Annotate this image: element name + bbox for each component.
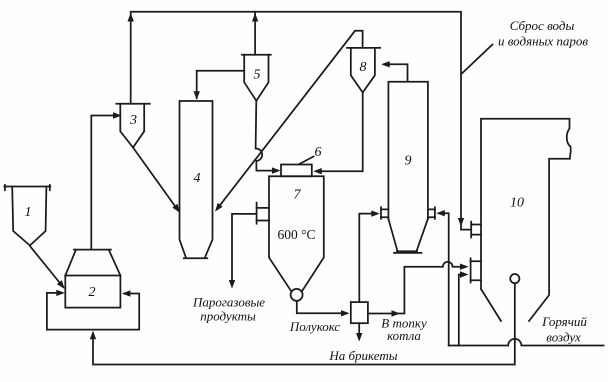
wire gasifier 2 to cyclone 3 inlet [91,116,119,250]
arrow into vessel 9 left flange [371,210,380,216]
wire hot air riser to vessel 9 right flange [439,213,449,345]
svg-text:Полукокс: Полукокс [289,319,341,334]
svg-text:и водяных паров: и водяных паров [498,34,588,49]
vessel 9 left flange [381,207,388,219]
svg-text:На брикеты: На брикеты [328,348,397,363]
arrow recycle up into jacket loop [90,331,96,340]
svg-text:7: 7 [294,188,302,203]
wire cyclone 3 underflow to vessel 4 [133,148,178,211]
furnace 10 drain circle [510,274,519,283]
cyclone 8 [347,48,380,93]
furnace 10 upper nozzle flange [471,222,481,238]
svg-text:Парогазовые: Парогазовые [192,295,265,310]
wire splitter down to briquettes [358,323,360,339]
arrow down На брикеты [356,333,362,342]
svg-text:котла: котла [387,328,421,343]
wire vessel 9 top to cyclone 8 [384,64,408,81]
furnace 10 lower nozzle flange [471,258,481,282]
arrow into furnace lower nozzle lower port [460,271,469,277]
svg-text:9: 9 [405,154,412,169]
wire hopper 1 chute to gasifier 2 [30,246,63,287]
svg-text:6: 6 [315,145,322,160]
arrow jacket loop into gasifier 2 left [56,290,65,296]
svg-text:воздух: воздух [546,330,581,345]
svg-text:продукты: продукты [200,309,256,324]
box 6 [281,165,312,177]
wire gasifier 2 jacket loop [47,293,139,330]
gasifier 2 body [65,250,120,308]
svg-text:10: 10 [510,196,524,211]
wire vessel 7 bottom to splitter box [297,301,347,313]
arrow into cyclone 3 inlet [113,112,122,118]
cyclone 5 [242,55,271,101]
svg-text:3: 3 [129,113,137,128]
wire splitter to boiler furnace with hop [368,262,466,314]
wire splitter riser to vessel 9 left flange [359,214,377,302]
vessel 7 body [269,176,324,291]
arrow into vessel 9 right flange [436,210,445,216]
vessel 9 right flange [428,207,435,219]
vessel 9 body [388,82,428,253]
wire cyclone 8 underflow to box 6 [317,93,363,172]
wire hot air branch to furnace lower nozzle [459,275,466,346]
arrow down Парогазовые продукты [229,280,235,289]
svg-text:8: 8 [360,60,367,75]
hopper 1 [4,185,50,246]
arrow diagonal into vessel 4 left wall [172,204,180,213]
furnace 10 outline [481,119,571,321]
arrow jacket loop into gasifier 2 right [122,290,130,296]
wire furnace drain recycle to gasifier 2 [93,283,515,364]
wire riser from cyclone 5 top [254,12,256,55]
svg-text:2: 2 [89,285,96,300]
svg-text:5: 5 [254,68,261,83]
cyclone 3 [116,104,149,148]
arrow up into top pipe from cyclone 3 [128,13,134,22]
arrow diagonal into vessel 4 right wall [215,203,223,212]
label pointer Сброс воды [462,45,493,74]
arrow down on discharge pipe [458,218,464,227]
wire cyclone 5 underflow to box 6 with line hop [256,101,278,171]
splitter box [351,302,368,323]
arrow into box 6 left [272,167,281,173]
svg-text:4: 4 [194,171,201,186]
svg-text:Сброс воды: Сброс воды [510,18,575,33]
arrow into splitter box [341,310,350,316]
svg-text:1: 1 [25,205,32,220]
arrow hopper 1 chute into gasifier 2 [57,280,65,289]
label pointer for 6 [299,157,314,165]
arrow mid-line В топку котла [392,310,401,316]
svg-text:600 °C: 600 °C [277,227,315,242]
vessel 7 bottom valve circle [291,289,303,301]
wire diagonal feed into cyclone 8 [217,31,362,209]
svg-text:Горячий: Горячий [541,314,587,329]
wire top collector pipe to discharge [131,12,471,230]
arrow into furnace lower nozzle upper port [460,264,469,270]
wire vessel 7 gas offtake to Парогазовые продукты [232,214,255,286]
arrow down into vessel 4 top [194,91,200,100]
vessel 4 [180,101,213,258]
wire cyclone 5 outlet to vessel 4 top [197,71,245,98]
arrow into cyclone 8 right wall [381,61,390,67]
wire hot air supply line with hop [449,339,604,346]
vessel 7 left nozzle flange [257,203,269,224]
arrow up into top pipe from cyclone 5 [252,13,258,22]
arrow into box 6 right [313,168,322,174]
